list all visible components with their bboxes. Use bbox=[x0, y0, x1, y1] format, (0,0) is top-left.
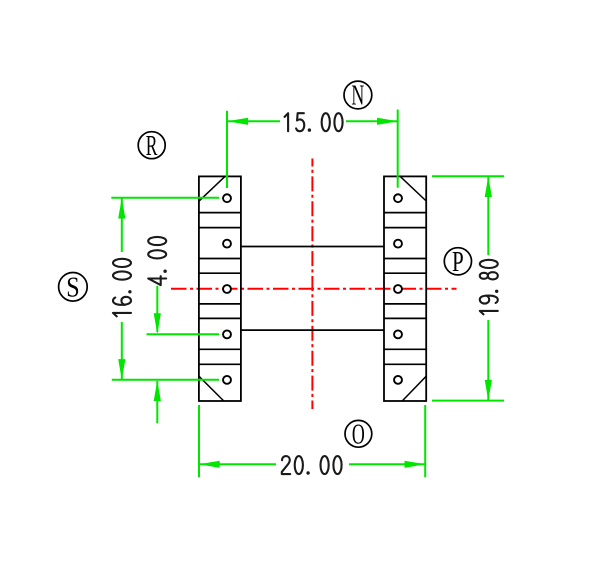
svg-text:O: O bbox=[352, 418, 365, 450]
svg-text:N: N bbox=[351, 80, 364, 112]
svg-text:R: R bbox=[146, 130, 158, 162]
svg-text:P: P bbox=[452, 246, 464, 278]
svg-text:S: S bbox=[66, 271, 79, 303]
